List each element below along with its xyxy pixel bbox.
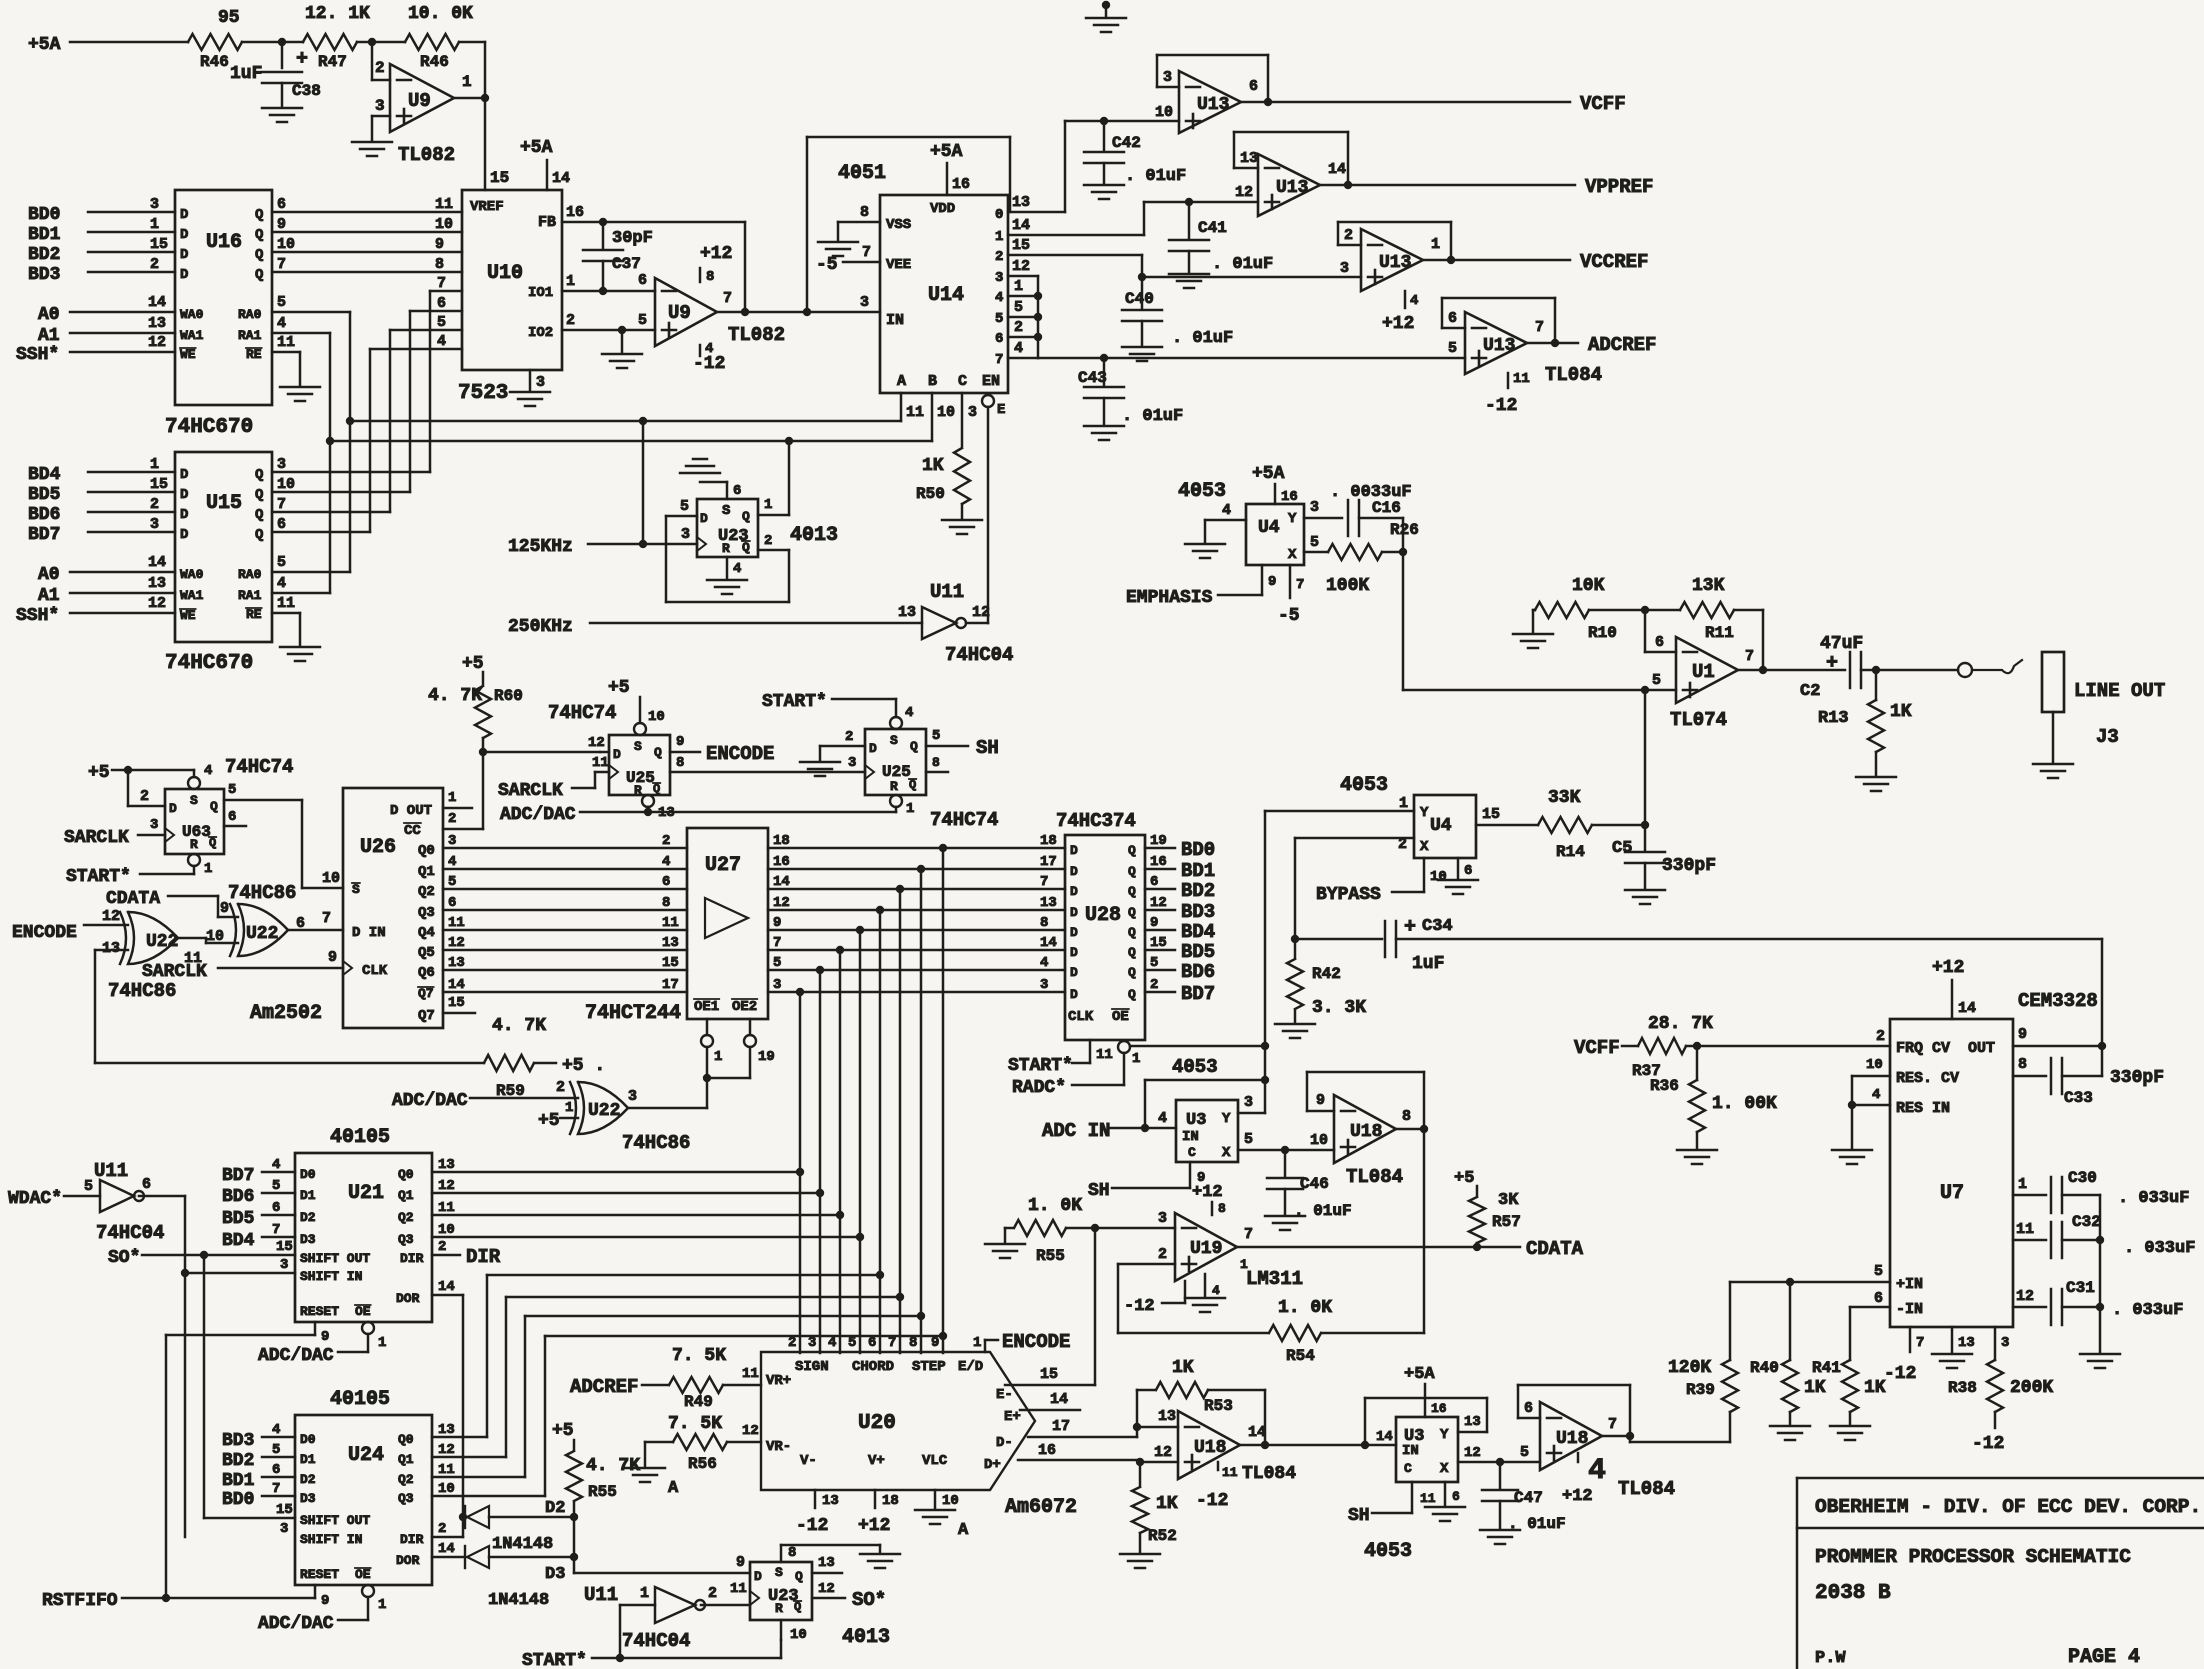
svg-text:D: D (1070, 843, 1078, 858)
svg-text:2: 2 (788, 1335, 796, 1351)
svg-text:D OUT: D OUT (390, 803, 432, 819)
wire R55 node to U23b D (574, 1572, 750, 1575)
svg-text:-12: -12 (1196, 1491, 1228, 1511)
U16 Q pin labels (238, 207, 263, 362)
op-amp U13 D ADCREF (1442, 298, 1578, 374)
svg-text:U9: U9 (668, 302, 691, 324)
svg-text:15: 15 (662, 955, 679, 971)
svg-text:9: 9 (773, 915, 781, 931)
svg-text:5: 5 (1874, 1263, 1883, 1280)
svg-text:14: 14 (148, 294, 166, 311)
wire U27 out 9 to U28 D (768, 915, 1065, 934)
svg-text:2: 2 (845, 729, 853, 745)
svg-text:-12: -12 (693, 354, 725, 374)
wire U28 Q to BD5 (1145, 935, 1215, 963)
svg-text:Q1: Q1 (398, 1452, 414, 1467)
svg-text:9: 9 (277, 216, 286, 233)
wire U7 +IN (1730, 1263, 1890, 1286)
svg-text:+: + (1826, 652, 1838, 675)
svg-text:ENCODE: ENCODE (12, 923, 77, 943)
svg-text:12: 12 (818, 1581, 835, 1597)
svg-text:74HC86: 74HC86 (228, 882, 296, 904)
wire SH to U3b (1348, 1482, 1436, 1526)
svg-text:4: 4 (1410, 293, 1418, 309)
svg-text:4. 7K: 4. 7K (586, 1456, 640, 1476)
wire BD1 to U16 (28, 216, 188, 245)
svg-text:2: 2 (1344, 227, 1353, 244)
svg-text:74HCT244: 74HCT244 (585, 1002, 681, 1025)
ground C42 (1084, 185, 1124, 199)
svg-text:D: D (1070, 864, 1078, 879)
svg-text:14: 14 (448, 977, 465, 993)
svg-text:7: 7 (723, 290, 732, 307)
stub U26 D OUT (443, 790, 472, 808)
svg-text:S: S (634, 739, 642, 754)
svg-text:1: 1 (462, 73, 472, 91)
svg-text:ADC IN: ADC IN (1042, 1120, 1110, 1142)
xor gate U22 C (570, 1082, 637, 1134)
wire data bus drop 4 to U20 (859, 930, 862, 1353)
wire U28 Q to BD0 (1145, 833, 1215, 861)
svg-text:Q: Q (1128, 864, 1136, 879)
svg-text:12: 12 (588, 735, 605, 751)
svg-text:7: 7 (1244, 1226, 1253, 1243)
wire U24 Q1 bus (432, 1293, 904, 1458)
wire BD3 to U16 (28, 256, 188, 285)
svg-text:3: 3 (150, 516, 159, 533)
wire BD3 to U24 (222, 1422, 295, 1451)
svg-text:330pF: 330pF (2110, 1068, 2164, 1088)
label -12 U13D (1485, 371, 1530, 416)
svg-text:D: D (169, 801, 177, 816)
svg-text:WA1: WA1 (180, 328, 204, 343)
svg-text:-12: -12 (796, 1516, 828, 1536)
svg-text:ADCREF: ADCREF (570, 1376, 638, 1398)
svg-text:6: 6 (1448, 310, 1457, 327)
svg-text:R14: R14 (1556, 843, 1585, 861)
svg-text:1: 1 (764, 497, 772, 513)
svg-text:C40: C40 (1125, 290, 1154, 308)
svg-text:2: 2 (556, 1079, 565, 1096)
wire U21 RESET (166, 1322, 329, 1598)
svg-text:9: 9 (1268, 574, 1276, 590)
wire U4b pin15 to R14 (1476, 806, 1538, 825)
ground U15 RE (280, 647, 320, 661)
resistor R39 120K (1668, 1282, 1738, 1442)
ground C38 (262, 108, 302, 122)
svg-text:D: D (180, 527, 188, 543)
svg-text:74HC86: 74HC86 (108, 980, 176, 1002)
svg-text:11: 11 (1096, 1047, 1113, 1063)
svg-text:R54: R54 (1286, 1347, 1315, 1365)
net START* bottom (522, 1651, 781, 1669)
svg-text:5: 5 (1520, 1444, 1529, 1461)
wire U20 VLC ground (915, 1490, 969, 1540)
svg-text:VEE: VEE (886, 257, 911, 273)
wire U15 Q7 to U10 pin 5 (272, 314, 462, 513)
svg-text:TL082: TL082 (398, 144, 455, 166)
svg-text:SARCLK: SARCLK (142, 962, 207, 982)
wire U25b D ground (820, 729, 865, 760)
svg-text:15: 15 (490, 169, 509, 187)
svg-text:2: 2 (448, 811, 456, 827)
svg-text:11: 11 (1420, 1491, 1436, 1506)
svg-text:+12: +12 (1562, 1487, 1593, 1506)
svg-text:13: 13 (102, 940, 120, 957)
svg-text:STEP: STEP (912, 1359, 946, 1375)
ground U23b S (860, 1554, 900, 1568)
svg-text:3: 3 (628, 1088, 637, 1105)
svg-text:10: 10 (648, 709, 665, 725)
svg-text:12: 12 (1012, 258, 1030, 275)
svg-text:Am6072: Am6072 (1005, 1496, 1077, 1519)
ic U63 74HC74 (165, 763, 224, 854)
svg-text:Q: Q (1128, 884, 1136, 899)
svg-text:6: 6 (1150, 874, 1158, 890)
ground A R56 (625, 1468, 679, 1498)
svg-text:-IN: -IN (1896, 1301, 1923, 1318)
label 74HC04 U11c (622, 1630, 690, 1652)
ic U15 74HC670 (175, 452, 272, 642)
svg-text:RES IN: RES IN (1896, 1100, 1950, 1117)
svg-text:Q: Q (209, 836, 216, 850)
svg-text:12: 12 (148, 595, 166, 612)
wire A1 to U16 WA1 (38, 315, 204, 346)
wire U14 ch0 to U13 pin10 (1008, 104, 1179, 212)
svg-text:13: 13 (448, 955, 465, 971)
svg-text:SHIFT OUT: SHIFT OUT (300, 1513, 370, 1528)
wire +5 to U63 (88, 763, 194, 806)
svg-text:U13: U13 (1276, 178, 1308, 198)
wire U24 Q3 bus (432, 1332, 947, 1497)
svg-text:1uF: 1uF (1412, 954, 1444, 974)
svg-text:13: 13 (148, 575, 166, 592)
svg-text:11: 11 (438, 1200, 455, 1216)
svg-text:RA0: RA0 (238, 307, 262, 322)
wire U4b pin6 ground (1438, 858, 1478, 894)
svg-text:11: 11 (1222, 1465, 1238, 1480)
svg-text:U14: U14 (928, 284, 964, 307)
svg-text:D: D (180, 467, 188, 483)
svg-text:VCCREF: VCCREF (1580, 251, 1648, 273)
inverter U11 second (84, 1160, 151, 1212)
svg-text:6: 6 (638, 272, 647, 289)
svg-text:3: 3 (860, 294, 869, 311)
wire U16 RA1 down bus (272, 315, 330, 593)
svg-text:D: D (1070, 965, 1078, 980)
svg-text:D: D (1070, 945, 1078, 960)
wire U24 DIR pin2 label (438, 1521, 446, 1537)
title company (1815, 1496, 2201, 1518)
svg-text:4: 4 (1040, 955, 1048, 971)
label 74HC86 U22b (228, 882, 296, 904)
svg-text:IO2: IO2 (528, 325, 553, 341)
wire SARCLK to U26 CLK (142, 949, 352, 982)
svg-text:D: D (700, 511, 708, 526)
svg-text:C37: C37 (612, 255, 641, 273)
svg-text:. 01uF: . 01uF (1212, 255, 1273, 274)
svg-text:TL084: TL084 (1346, 1166, 1403, 1188)
svg-text:5: 5 (1310, 534, 1319, 551)
net +5A input (28, 35, 188, 55)
svg-text:OBERHEIM - DIV. OF ECC DEV. CO: OBERHEIM - DIV. OF ECC DEV. CORP. (1815, 1496, 2201, 1518)
svg-text:DIR: DIR (466, 1246, 501, 1268)
wire U15 RE to ground (272, 595, 300, 645)
ground U4a (1185, 544, 1225, 558)
U20 top inside labels (795, 1359, 983, 1375)
wire SSH* to U16 WE (16, 334, 196, 365)
svg-text:10. 0K: 10. 0K (408, 4, 473, 24)
svg-text:BD4: BD4 (1181, 921, 1215, 943)
svg-text:Q: Q (1128, 905, 1136, 920)
resistor R42 3.3K (1287, 939, 1366, 1018)
svg-text:U21: U21 (348, 1182, 384, 1205)
svg-text:8: 8 (1402, 1108, 1411, 1125)
svg-text:13: 13 (1012, 194, 1030, 211)
svg-text:-12: -12 (1124, 1297, 1155, 1316)
wire U19 plus from R54 (1118, 1246, 1175, 1333)
svg-text:Q: Q (255, 467, 263, 483)
svg-text:7: 7 (773, 935, 781, 951)
ground R55b (985, 1228, 1025, 1258)
wire U18a out (1396, 1108, 1424, 1129)
wire U14 ch4-7 strap (1008, 258, 1042, 358)
svg-text:2: 2 (150, 496, 159, 513)
label 4053 U3b (1364, 1540, 1412, 1563)
svg-text:10: 10 (322, 870, 340, 887)
svg-text:SSH*: SSH* (16, 606, 59, 626)
svg-text:TL084: TL084 (1545, 364, 1602, 386)
svg-text:5: 5 (277, 554, 286, 571)
svg-text:U24: U24 (348, 1444, 384, 1467)
svg-text:RE: RE (246, 347, 262, 362)
svg-text:BD4: BD4 (28, 465, 61, 485)
svg-text:D-: D- (996, 1435, 1013, 1451)
svg-text:BD3: BD3 (222, 1431, 254, 1451)
svg-text:3: 3 (808, 1335, 816, 1351)
svg-text:Q0: Q0 (398, 1167, 414, 1182)
svg-text:4: 4 (662, 854, 670, 870)
svg-text:1K: 1K (1156, 1494, 1178, 1514)
svg-text:4. 7K: 4. 7K (492, 1016, 546, 1036)
wire U23 clock pin3 (681, 526, 706, 551)
svg-text:16: 16 (566, 204, 584, 221)
wire U21 DOR cascade (432, 1279, 467, 1537)
svg-text:11: 11 (742, 1366, 759, 1382)
svg-text:CLK: CLK (362, 963, 388, 979)
capacitor C2 47uF (1800, 634, 1863, 701)
wire R11 to U1 out (1734, 610, 1763, 670)
ic U3 first 4053 (1158, 1100, 1238, 1162)
svg-text:12: 12 (2016, 1288, 2034, 1305)
svg-text:2: 2 (375, 59, 385, 77)
label LM311 (1240, 1257, 1303, 1290)
svg-text:11: 11 (1513, 371, 1530, 387)
capacitor C5 330pF (1612, 825, 1716, 888)
wire U28 Q to BD7 (1145, 977, 1215, 1005)
capacitor C43 .01uF (1078, 358, 1183, 426)
svg-text:C: C (958, 373, 967, 390)
svg-text:6: 6 (995, 331, 1003, 347)
wire R60 to CC (443, 738, 487, 829)
svg-text:3K: 3K (1498, 1191, 1519, 1210)
wire U18d feedback (1518, 1385, 1634, 1440)
svg-text:FRQ CV: FRQ CV (1896, 1040, 1950, 1057)
svg-text:R46: R46 (420, 53, 449, 71)
resistor R56 7.5K (668, 1414, 727, 1473)
svg-text:8: 8 (435, 256, 444, 273)
wire SARCLK to U63 (64, 817, 174, 848)
svg-text:U22: U22 (246, 924, 278, 944)
svg-text:8: 8 (909, 1335, 917, 1351)
wire U26 Q3 to U27 (443, 895, 687, 911)
wire U27 out 5 to U28 D (768, 955, 1065, 974)
ic U4 second (1398, 795, 1476, 858)
svg-text:1: 1 (204, 861, 212, 877)
svg-text:5: 5 (995, 311, 1003, 327)
svg-text:15: 15 (448, 995, 465, 1011)
svg-text:15: 15 (276, 1239, 293, 1255)
U24 inside labels (300, 1432, 424, 1582)
svg-text:. 01uF: . 01uF (1172, 329, 1233, 348)
wire BD4 to U21 (222, 1222, 295, 1251)
svg-text:3: 3 (280, 1521, 288, 1537)
wire U4 X to R26 (1304, 534, 1328, 552)
wire U19 out CDATA (1237, 1226, 1584, 1260)
wire 250KHz to U11 (508, 617, 922, 637)
ground R52 (1120, 1554, 1160, 1568)
svg-text:2: 2 (140, 788, 149, 805)
label TL074 (1670, 709, 1727, 731)
wire U16 Q9 to U10 pin 10 (272, 216, 462, 233)
svg-text:C38: C38 (292, 82, 321, 100)
svg-text:11: 11 (592, 755, 609, 771)
svg-text:. 033uF: . 033uF (2112, 1301, 2183, 1320)
svg-text:14: 14 (148, 554, 166, 571)
U14 bottom labels (897, 373, 1000, 390)
svg-text:BD0: BD0 (222, 1490, 254, 1510)
U21 inside labels (300, 1167, 424, 1319)
wire U23 Q to B line (758, 441, 789, 515)
wire U25a D (588, 735, 605, 751)
wire U15 Q6 to U10 pin 4 (272, 333, 462, 533)
svg-text:10: 10 (277, 236, 295, 253)
svg-text:S: S (722, 503, 730, 519)
wire A0 to U15 WA0 (38, 554, 204, 585)
svg-text:74HC74: 74HC74 (930, 809, 998, 831)
wire R56 to VR- (727, 1423, 761, 1442)
svg-text:-12: -12 (1485, 396, 1517, 416)
ground U10 (510, 392, 550, 406)
svg-text:5: 5 (437, 314, 446, 331)
wire A select to 125KHz line (639, 421, 647, 548)
svg-text:VR-: VR- (766, 1439, 791, 1455)
wire U3a feedback (1145, 1080, 1265, 1128)
svg-text:40105: 40105 (330, 1388, 390, 1411)
svg-text:OE: OE (1112, 1009, 1129, 1025)
svg-text:6: 6 (1874, 1290, 1883, 1307)
svg-text:U11: U11 (930, 581, 964, 603)
svg-text:95: 95 (218, 8, 240, 28)
wire U26 Q1 to U27 (443, 854, 687, 870)
svg-text:5: 5 (272, 1178, 280, 1194)
label TL084 U18c (1218, 1462, 1296, 1484)
label 74HC670 U15 (165, 652, 253, 675)
svg-text:7: 7 (1040, 874, 1048, 890)
svg-text:R40: R40 (1750, 1359, 1779, 1377)
svg-text:START*: START* (762, 692, 827, 712)
svg-text:1. 0K: 1. 0K (1278, 1298, 1332, 1318)
svg-text:ADC/DAC: ADC/DAC (258, 1614, 334, 1634)
svg-text:3: 3 (681, 526, 690, 543)
net VPPREF (1585, 176, 1653, 198)
svg-text:5: 5 (228, 782, 236, 798)
svg-text:D3: D3 (545, 1565, 565, 1584)
svg-text:C16: C16 (1372, 499, 1401, 517)
svg-text:1: 1 (1240, 1257, 1248, 1272)
wire U11 out to EN (966, 622, 988, 625)
wire SH to U3a C (1088, 1162, 1205, 1201)
resistor R50 1K (916, 448, 970, 504)
wire U9b out to U14 IN (717, 290, 880, 316)
capacitor C46 .01uF (1267, 1150, 1352, 1220)
wire U21 Q0 bus (432, 1157, 804, 1176)
wire A0 to U16 WA0 (38, 294, 204, 325)
wire ADCREF feed to U13 pin5 (1038, 340, 1465, 362)
label 74HC670 U16 (165, 416, 253, 439)
svg-text:18: 18 (773, 833, 790, 849)
svg-text:15: 15 (1012, 237, 1030, 254)
svg-text:9: 9 (676, 734, 684, 750)
ic U24 40105 (295, 1415, 432, 1585)
svg-text:D: D (180, 247, 188, 263)
wire ENCODE to U20 (985, 1331, 1070, 1353)
wire U14 EN (982, 395, 1005, 623)
ground R50 (942, 504, 982, 534)
svg-text:12: 12 (1154, 1444, 1172, 1461)
label +12 U9b (700, 244, 732, 285)
wire U26 Q4 to U27 (443, 915, 687, 931)
svg-text:6: 6 (1655, 634, 1664, 651)
svg-text:74HC670: 74HC670 (165, 416, 253, 439)
svg-text:14: 14 (1248, 1424, 1266, 1441)
svg-text:1: 1 (150, 216, 159, 233)
svg-text:7: 7 (437, 275, 446, 292)
svg-text:9: 9 (2018, 1026, 2027, 1043)
svg-text:RESET: RESET (300, 1304, 339, 1319)
svg-text:7: 7 (888, 1335, 896, 1351)
svg-text:+12: +12 (1932, 958, 1964, 978)
label 74HC74 U63 (225, 756, 293, 778)
wire U14 ch1 to U13 pin12 (1008, 184, 1258, 235)
label -12 U18c (1196, 1491, 1228, 1511)
ic U21 40105 (295, 1153, 432, 1322)
svg-text:3: 3 (848, 755, 856, 771)
label TL084 U18d (1618, 1478, 1675, 1500)
xor gate U22 A (102, 908, 202, 967)
svg-text:START*: START* (522, 1651, 587, 1669)
svg-text:D1: D1 (300, 1188, 316, 1203)
svg-text:3: 3 (1310, 499, 1319, 516)
svg-text:8: 8 (676, 755, 684, 771)
wire BD6 to U21 (222, 1178, 295, 1207)
svg-text:8: 8 (860, 204, 869, 221)
svg-text:200K: 200K (2010, 1378, 2053, 1398)
svg-text:13: 13 (438, 1422, 455, 1438)
svg-text:U18: U18 (1194, 1438, 1226, 1458)
svg-text:Q: Q (909, 778, 916, 792)
svg-text:D: D (180, 207, 188, 223)
